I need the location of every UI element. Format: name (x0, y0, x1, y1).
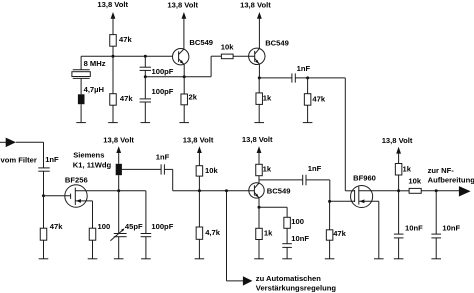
resistor 47k (lower bias, crystal stage) (110, 94, 134, 106)
node base bus stage1 (81, 55, 173, 57)
svg-text:Verstärkungsregelung: Verstärkungsregelung (256, 283, 337, 292)
ground (10nF output 1) (394, 258, 404, 260)
svg-text:10k: 10k (221, 42, 234, 51)
svg-text:10k: 10k (205, 166, 218, 175)
svg-text:8 MHz: 8 MHz (84, 59, 106, 68)
svg-text:1nF: 1nF (156, 153, 170, 162)
resistor 1k (Q2 emitter) (256, 78, 272, 123)
svg-text:47k: 47k (333, 229, 346, 238)
ground (47k lower) (108, 122, 118, 124)
svg-text:10nF: 10nF (442, 223, 460, 232)
resistor 10k (output series) (399, 176, 460, 193)
svg-text:47k: 47k (50, 222, 63, 231)
svg-text:100: 100 (291, 217, 304, 226)
ground (10nF output 2) (431, 258, 441, 260)
capacitor 1nF (K1 tap coupling) (156, 153, 170, 175)
resistor 1k (BF960 drain) (395, 164, 411, 191)
ground (100pF bypass) (141, 122, 151, 124)
junction 47k load (306, 76, 309, 79)
wire K1 tap (122, 168, 161, 170)
resistor 2k (Q1 emitter) (181, 77, 198, 123)
transistor BC549 Q3 (249, 183, 291, 198)
power +13,8V supply 7 (BF960 drain) (382, 136, 413, 163)
junction output 10nF 2 (435, 189, 438, 192)
output arrow zur NF-Aufbereitung (428, 166, 474, 196)
ground (1k Q2) (254, 122, 264, 124)
resistor 10k (stage3 base supply) (196, 166, 218, 191)
wire BF960 drain (359, 190, 399, 192)
arrow zu AGC (243, 276, 253, 285)
junction AGC takeoff (225, 189, 228, 192)
junction gate node BF256 (42, 194, 45, 197)
capacitor 10nF (Q3 emitter RC) (282, 234, 309, 259)
capacitor 10nF (output node 2) (431, 191, 460, 259)
wire BF960 source to ground (378, 201, 380, 258)
wire BF256 drain node (75, 190, 146, 192)
inductor 4,7µH (78, 85, 104, 104)
junction drain output node (397, 189, 400, 192)
svg-text:BC549: BC549 (265, 38, 289, 47)
resistor 100 (BF256 source) (89, 222, 110, 259)
svg-text:4,7k: 4,7k (205, 228, 221, 237)
power +13,8V supply 2 (Q1 collector) (167, 0, 198, 49)
capacitor 45pF (trimmer) (110, 222, 143, 259)
svg-text:10nF: 10nF (405, 223, 423, 232)
svg-text:1k: 1k (263, 93, 272, 102)
wire 1nF to gate2 riser (295, 77, 345, 79)
ground (inductor) (76, 122, 86, 124)
junction emitter bus left (144, 75, 147, 78)
capacitor 10nF (output node 1) (394, 191, 423, 259)
svg-text:zu Automatischen: zu Automatischen (256, 274, 321, 283)
svg-text:100: 100 (98, 222, 111, 231)
svg-text:47k: 47k (312, 94, 325, 103)
wire crystal to inductor (80, 78, 82, 94)
svg-text:Aufbereitung: Aufbereitung (428, 176, 474, 185)
svg-text:13,8 Volt: 13,8 Volt (242, 135, 273, 144)
capacitor 1nF (input) (38, 142, 59, 196)
resistor 47k (BF256 gate bias) (40, 196, 63, 259)
wire 1nF tap to stage3 base bus (164, 169, 254, 190)
svg-text:13,8 Volt: 13,8 Volt (183, 136, 214, 145)
ground (BF960 source) (374, 258, 384, 260)
coil K1 Siemens 11Wdg (73, 150, 122, 175)
svg-text:100pF: 100pF (152, 87, 174, 96)
ground (45pF) (114, 258, 124, 260)
wire emitter bus stage1 (145, 76, 211, 78)
svg-text:Siemens: Siemens (73, 150, 104, 159)
junction emitter/2k (183, 75, 186, 78)
resistor 1k (Q3 collector) (256, 164, 272, 183)
ground (100 source) (88, 258, 98, 260)
resistor 4,7k (stage3 base lower) (196, 191, 221, 259)
svg-text:47k: 47k (120, 94, 133, 103)
power +13,8V supply 5 (10k) (183, 136, 214, 166)
text zu Automatischen Verstärkungsregelung (256, 274, 337, 292)
wire K1 to drain junction (118, 175, 120, 191)
svg-text:BF960: BF960 (353, 174, 376, 183)
ground (4,7k) (195, 258, 205, 260)
ground (47k gate) (39, 258, 49, 260)
junction base bus / 10k (198, 189, 201, 192)
svg-text:1nF: 1nF (45, 155, 59, 164)
ground (10nF Q3) (282, 258, 292, 260)
svg-text:10k: 10k (408, 176, 421, 185)
svg-text:1k: 1k (264, 228, 273, 237)
transistor BC549 Q1 (173, 38, 214, 65)
wire crystal drop (80, 56, 82, 69)
resistor 10k (interstage) (221, 42, 234, 58)
resistor 47k (BF960 gate1) (326, 201, 346, 258)
svg-text:13,8 Volt: 13,8 Volt (382, 136, 413, 145)
svg-text:45pF: 45pF (125, 222, 143, 231)
wire 47k lower to ground (112, 105, 114, 122)
svg-text:4,7µH: 4,7µH (84, 85, 104, 94)
wire 1nF to BF960 gate1 (306, 180, 355, 202)
junction gate1 node (328, 200, 331, 203)
resistor 100 (Q3 emitter RC) (284, 217, 304, 244)
capacitor 100pF (tank) (141, 222, 174, 259)
transistor BC549 Q2 (249, 38, 289, 64)
junction base/47k (112, 55, 115, 58)
capacitor 100pF (emitter bypass) (140, 77, 174, 123)
wire Q3 collector to 1nF (259, 179, 303, 181)
ground (2k) (179, 122, 189, 124)
resistor 47k (after 1nF) (304, 78, 325, 123)
svg-text:BF256: BF256 (65, 175, 88, 184)
svg-text:13,8 Volt: 13,8 Volt (97, 0, 128, 9)
wire supply1 to base node (112, 46, 114, 93)
resistor 47k (upper bias, crystal stage) (110, 35, 133, 47)
junction Q3 emitter node (258, 206, 261, 209)
svg-text:10nF: 10nF (291, 234, 309, 243)
svg-text:13,8 Volt: 13,8 Volt (240, 0, 271, 9)
wire Q2 emitter node to 1nF (259, 77, 292, 79)
power +13,8V supply 6 (Q3 collector) (242, 135, 273, 165)
svg-text:K1, 11Wdg: K1, 11Wdg (73, 161, 112, 170)
wire BF256 source drop (92, 201, 94, 228)
wire Q3 emitter (258, 198, 260, 207)
wire coupling riser stage1-2 (211, 56, 221, 76)
wire 45pF drop (118, 191, 120, 234)
wire Q3 emitter RC branch (259, 207, 287, 217)
wire AGC (227, 191, 244, 281)
wire inductor to ground (80, 104, 82, 122)
svg-text:100pF: 100pF (151, 222, 173, 231)
junction Q2 emitter node (258, 76, 261, 79)
svg-text:47k: 47k (119, 35, 132, 44)
power +13,8V supply 1 (crystal stage) (97, 0, 128, 34)
wire 100pF tank drop (145, 191, 147, 234)
power +13,8V supply 4 (K1 coil) (103, 136, 134, 164)
capacitor 1nF (Q2 output coupling) (292, 64, 311, 82)
power +13,8V supply 3 (Q2 collector) (240, 0, 271, 48)
wire Q1 emitter (183, 65, 185, 77)
resistor 1k (Q3 emitter) (256, 207, 273, 259)
svg-text:1nF: 1nF (297, 64, 311, 73)
svg-text:zur NF-: zur NF- (428, 166, 455, 175)
svg-text:13,8 Volt: 13,8 Volt (167, 0, 198, 9)
svg-text:1k: 1k (403, 164, 412, 173)
input arrow vom Filter (0, 138, 44, 165)
svg-text:BC549: BC549 (267, 186, 291, 195)
crystal 8 MHz (72, 59, 106, 78)
capacitor 1nF (Q3 output coupling) (303, 164, 322, 185)
ground (100pF tank) (141, 258, 151, 260)
capacitor 100pF (base-emitter) (140, 56, 174, 76)
junction base/100pF (144, 55, 147, 58)
wire 10k to Q2 base (233, 55, 255, 57)
junction drain node (117, 189, 120, 192)
ground (1k Q3) (254, 258, 264, 260)
JFET BF256 (65, 175, 93, 207)
ground (47k gate1) (325, 258, 335, 260)
wire Q2 emitter (258, 64, 260, 78)
svg-text:vom Filter: vom Filter (1, 155, 37, 164)
svg-text:2k: 2k (189, 93, 198, 102)
ground (47k) (303, 122, 313, 124)
MOSFET BF960 (345, 174, 379, 208)
svg-text:1k: 1k (263, 165, 272, 174)
wire gate BF256 (44, 195, 71, 197)
svg-text:100pF: 100pF (152, 67, 174, 76)
svg-text:BC549: BC549 (189, 38, 213, 47)
svg-text:1nF: 1nF (308, 164, 322, 173)
svg-text:13,8 Volt: 13,8 Volt (103, 136, 134, 145)
wire gate2 drop to BF960 (344, 78, 346, 191)
